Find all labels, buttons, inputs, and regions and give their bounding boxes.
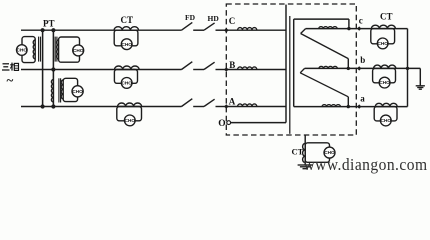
svg-text:a: a	[360, 94, 365, 104]
svg-text:www.diangon.com: www.diangon.com	[304, 155, 428, 174]
svg-text:CHO: CHO	[125, 118, 136, 123]
svg-text:CT: CT	[121, 15, 134, 25]
svg-text:C: C	[229, 16, 236, 26]
svg-text:CHO: CHO	[381, 118, 392, 123]
svg-text:CHO: CHO	[17, 48, 28, 53]
svg-text:CT: CT	[380, 11, 393, 21]
svg-text:B: B	[229, 60, 235, 70]
svg-text:CHO: CHO	[377, 41, 388, 46]
svg-text:b: b	[360, 55, 365, 65]
svg-text:O: O	[218, 119, 225, 129]
svg-text:HD: HD	[208, 14, 220, 23]
svg-text:CHO: CHO	[72, 89, 83, 94]
svg-text:c: c	[359, 16, 363, 26]
svg-text:CHO: CHO	[73, 48, 84, 53]
svg-text:FD: FD	[185, 13, 196, 22]
svg-text:CHO: CHO	[121, 42, 132, 47]
svg-text:CT: CT	[292, 146, 304, 156]
svg-text:A: A	[229, 97, 236, 107]
svg-text:CHO: CHO	[379, 80, 390, 85]
svg-text:~: ~	[7, 73, 14, 88]
svg-text:CHO: CHO	[121, 81, 132, 86]
svg-text:PT: PT	[43, 19, 55, 29]
